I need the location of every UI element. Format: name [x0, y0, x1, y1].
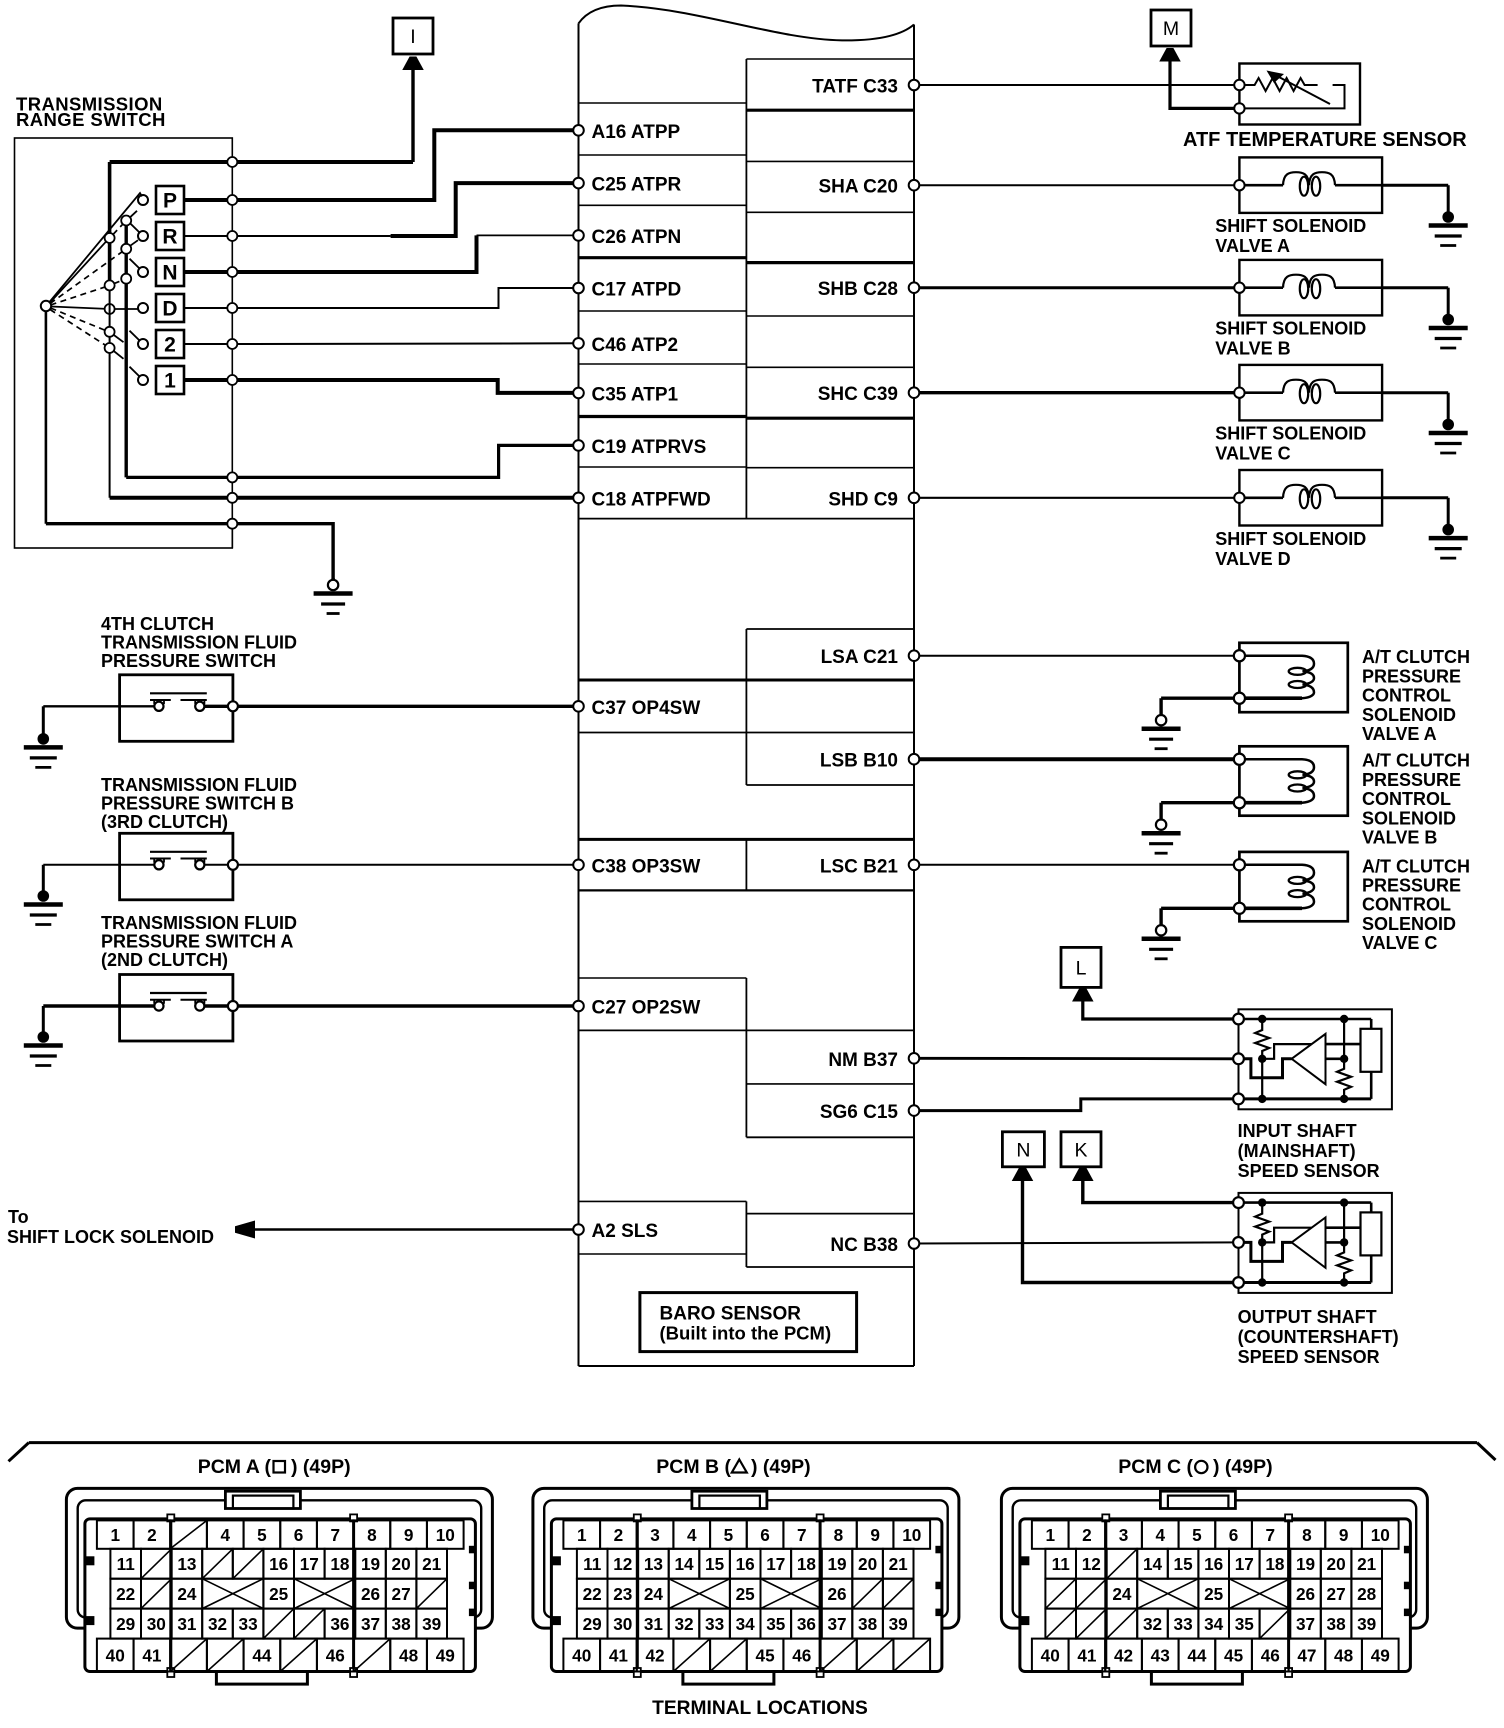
svg-text:VALVE A: VALVE A [1362, 724, 1437, 744]
svg-text:38: 38 [392, 1614, 412, 1634]
svg-text:8: 8 [834, 1525, 844, 1545]
svg-text:45: 45 [1224, 1645, 1244, 1665]
ground wire clutch valve C [1161, 907, 1234, 910]
wire SHA PCM to shift solenoid valve A [914, 184, 1239, 186]
input shaft (mainshaft) speed sensor [1233, 1009, 1392, 1109]
wire R box to bus [184, 235, 232, 237]
svg-text:C17 ATPD: C17 ATPD [592, 280, 682, 301]
svg-text:ATF TEMPERATURE SENSOR: ATF TEMPERATURE SENSOR [1183, 129, 1467, 151]
svg-text:17: 17 [1235, 1554, 1254, 1574]
svg-text:(2ND CLUTCH): (2ND CLUTCH) [101, 950, 228, 970]
ground (switch B) [42, 865, 45, 896]
svg-text:SOLENOID: SOLENOID [1362, 808, 1456, 828]
PCM pin terminal circles [573, 80, 919, 1249]
svg-text:VALVE A: VALVE A [1215, 236, 1290, 256]
svg-text:2: 2 [164, 334, 176, 357]
contact 1 [138, 375, 148, 385]
svg-text:26: 26 [1296, 1584, 1315, 1604]
svg-text:OUTPUT SHAFT: OUTPUT SHAFT [1238, 1307, 1377, 1327]
svg-text:19: 19 [827, 1554, 846, 1574]
svg-text:2: 2 [1082, 1525, 1092, 1545]
svg-text:C37 OP4SW: C37 OP4SW [592, 698, 701, 719]
svg-text:9: 9 [1339, 1525, 1349, 1545]
svg-text:RANGE SWITCH: RANGE SWITCH [16, 109, 166, 130]
range switch position box P [156, 186, 184, 214]
svg-text:9: 9 [870, 1525, 880, 1545]
output shaft (countershaft) speed sensor [1233, 1193, 1392, 1293]
range switch position box 2 [156, 330, 184, 358]
svg-text:32: 32 [1143, 1614, 1162, 1634]
svg-text:PRESSURE: PRESSURE [1362, 770, 1461, 790]
wire TATF C33 to sensor [914, 84, 1239, 86]
svg-text:31: 31 [177, 1614, 197, 1634]
svg-text:15: 15 [705, 1554, 725, 1574]
svg-text:PCM B (: PCM B ( [656, 1456, 731, 1478]
ground (shift solenoid valve C) [1447, 393, 1450, 425]
svg-text:A16 ATPP: A16 ATPP [592, 122, 681, 143]
svg-text:VALVE D: VALVE D [1215, 549, 1290, 569]
svg-text:17: 17 [300, 1554, 319, 1574]
svg-text:VALVE B: VALVE B [1362, 828, 1437, 848]
PCM internal cell borders [579, 59, 915, 1267]
wire LSA PCM to clutch valve A [914, 655, 1239, 657]
connector M arrowhead [1159, 48, 1181, 62]
svg-text:1: 1 [577, 1525, 587, 1545]
svg-text:9: 9 [404, 1525, 414, 1545]
svg-text:C38 OP3SW: C38 OP3SW [592, 856, 701, 877]
svg-text:7: 7 [1265, 1525, 1275, 1545]
svg-text:10: 10 [436, 1525, 455, 1545]
variable-resistor arrow [1277, 76, 1330, 104]
svg-text:2: 2 [614, 1525, 624, 1545]
svg-text:41: 41 [142, 1645, 162, 1665]
dashed linkage lines [50, 224, 123, 346]
svg-text:14: 14 [1143, 1554, 1163, 1574]
ground wire valve C [1382, 391, 1448, 394]
svg-text:5: 5 [257, 1525, 267, 1545]
svg-text:33: 33 [705, 1614, 724, 1634]
wire N to C26 ATPN [232, 235, 476, 272]
svg-text:48: 48 [399, 1645, 419, 1665]
wiper link pivot to column A [50, 241, 107, 302]
svg-text:40: 40 [1041, 1645, 1060, 1665]
svg-text:21: 21 [422, 1554, 442, 1574]
svg-text:36: 36 [797, 1614, 816, 1634]
wire P to A16 ATPP [232, 130, 578, 200]
wire P box to bus [184, 198, 232, 202]
svg-text:NM B37: NM B37 [828, 1050, 898, 1071]
A/T clutch pressure control solenoid valve B [1234, 746, 1348, 815]
svg-text:P: P [163, 190, 177, 213]
svg-text:18: 18 [1265, 1554, 1285, 1574]
ground wire valve D [1382, 496, 1448, 499]
svg-text:) (49P): ) (49P) [291, 1456, 351, 1478]
ground wire clutch valve A [1161, 697, 1234, 700]
svg-text:42: 42 [646, 1645, 665, 1665]
wire LSC PCM to clutch valve C [914, 864, 1239, 866]
svg-text:39: 39 [889, 1614, 908, 1634]
transmission fluid pressure switch B [120, 833, 233, 900]
svg-text:SHIFT LOCK SOLENOID: SHIFT LOCK SOLENOID [7, 1227, 214, 1247]
svg-text:2: 2 [147, 1525, 157, 1545]
svg-text:39: 39 [1357, 1614, 1376, 1634]
svg-text:35: 35 [1235, 1614, 1255, 1634]
svg-text:18: 18 [330, 1554, 350, 1574]
svg-text:LSB B10: LSB B10 [820, 751, 898, 772]
svg-text:C46 ATP2: C46 ATP2 [592, 335, 679, 356]
terminal locations frame [9, 1443, 1496, 1462]
svg-text:SHIFT SOLENOID: SHIFT SOLENOID [1215, 319, 1366, 339]
svg-text:SHB C28: SHB C28 [818, 279, 898, 300]
svg-text:(3RD CLUTCH): (3RD CLUTCH) [101, 812, 228, 832]
connector I [393, 18, 433, 54]
svg-text:44: 44 [1187, 1645, 1207, 1665]
svg-text:20: 20 [1327, 1554, 1346, 1574]
wire 2 box to bus [184, 343, 232, 345]
ground (clutch valve C) [1159, 908, 1162, 926]
svg-text:37: 37 [1296, 1614, 1315, 1634]
svg-text:13: 13 [177, 1554, 196, 1574]
svg-text:TRANSMISSION FLUID: TRANSMISSION FLUID [101, 633, 297, 653]
svg-text:SOLENOID: SOLENOID [1362, 705, 1456, 725]
shift solenoid valve C [1234, 365, 1382, 421]
svg-text:PRESSURE: PRESSURE [1362, 666, 1461, 686]
svg-text:40: 40 [106, 1645, 125, 1665]
svg-text:N: N [1016, 1139, 1030, 1161]
connector N arrowhead [1012, 1168, 1034, 1182]
BARO sensor (built into PCM) [640, 1293, 857, 1352]
svg-text:41: 41 [1077, 1645, 1097, 1665]
switch column line B (x=126.2) [124, 221, 127, 478]
svg-text:32: 32 [208, 1614, 227, 1634]
A/T clutch pressure control solenoid valve A [1234, 643, 1348, 712]
svg-text:BARO SENSOR: BARO SENSOR [660, 1304, 802, 1325]
svg-text:6: 6 [294, 1525, 304, 1545]
contact D [138, 303, 148, 313]
wire input sensor to connector L [1083, 1000, 1239, 1019]
svg-text:4TH CLUTCH: 4TH CLUTCH [101, 614, 214, 634]
wire SHB PCM to shift solenoid valve B [914, 286, 1239, 289]
svg-text:46: 46 [1261, 1645, 1280, 1665]
svg-text:43: 43 [1151, 1645, 1170, 1665]
wire output sensor to connector N [1023, 1180, 1239, 1282]
svg-text:SHIFT SOLENOID: SHIFT SOLENOID [1215, 529, 1366, 549]
svg-text:3: 3 [650, 1525, 660, 1545]
wire A2 SLS to shift lock solenoid [252, 1228, 579, 1231]
svg-text:46: 46 [326, 1645, 345, 1665]
svg-text:41: 41 [609, 1645, 629, 1665]
shift solenoid valve B [1234, 260, 1382, 316]
A/T clutch pressure control solenoid valve C [1234, 852, 1348, 921]
wire SG6 C15 to input sensor [914, 1099, 1239, 1111]
wire SHC PCM to shift solenoid valve C [914, 391, 1239, 394]
svg-text:7: 7 [330, 1525, 340, 1545]
svg-text:A2 SLS: A2 SLS [592, 1221, 659, 1242]
svg-text:TERMINAL LOCATIONS: TERMINAL LOCATIONS [652, 1698, 868, 1719]
PCM A connector (terminal view) [66, 1488, 492, 1684]
svg-text:24: 24 [1112, 1584, 1132, 1604]
svg-text:38: 38 [1327, 1614, 1347, 1634]
wire 1 box to bus [184, 378, 232, 382]
4th clutch transmission fluid pressure switch [120, 675, 233, 742]
svg-text:CONTROL: CONTROL [1362, 686, 1451, 706]
svg-text:VALVE C: VALVE C [1215, 444, 1290, 464]
svg-text:PRESSURE SWITCH A: PRESSURE SWITCH A [101, 932, 293, 952]
range switch position box D [156, 294, 184, 322]
svg-text:SPEED SENSOR: SPEED SENSOR [1238, 1161, 1380, 1181]
svg-text:A/T CLUTCH: A/T CLUTCH [1362, 856, 1470, 876]
contact P [138, 195, 148, 205]
ground (clutch valve B) [1159, 803, 1162, 821]
svg-text:12: 12 [1082, 1554, 1101, 1574]
svg-text:VALVE B: VALVE B [1215, 339, 1290, 359]
wire bus to range switch ground [232, 524, 333, 580]
svg-text:8: 8 [367, 1525, 377, 1545]
svg-text:16: 16 [736, 1554, 755, 1574]
ground (4th clutch switch) [42, 706, 45, 739]
svg-text:46: 46 [792, 1645, 811, 1665]
wire R to C25 ATPR [232, 235, 390, 237]
svg-text:48: 48 [1334, 1645, 1354, 1665]
wire NM B37 to input sensor [914, 1057, 1239, 1060]
svg-text:4: 4 [1155, 1525, 1165, 1545]
range switch position box N [156, 258, 184, 286]
ground (shift solenoid valve A) [1447, 185, 1450, 217]
svg-text:7: 7 [797, 1525, 807, 1545]
svg-text:SOLENOID: SOLENOID [1362, 914, 1456, 934]
wire output sensor to connector K [1083, 1180, 1239, 1202]
svg-text:31: 31 [644, 1614, 664, 1634]
svg-text:C26 ATPN: C26 ATPN [592, 227, 682, 248]
wire ATPFWD to C18 [110, 496, 579, 500]
arrowhead to shift lock solenoid [235, 1221, 255, 1239]
ground (shift solenoid valve B) [1447, 288, 1450, 320]
svg-text:C25 ATPR: C25 ATPR [592, 175, 682, 196]
svg-text:23: 23 [613, 1584, 632, 1604]
connector K [1061, 1132, 1101, 1167]
svg-text:21: 21 [1357, 1554, 1377, 1574]
contact 2 [138, 339, 148, 349]
svg-text:I: I [410, 26, 415, 48]
bus node circles [227, 157, 237, 529]
switch box bottom-right step [231, 524, 233, 548]
svg-text:49: 49 [436, 1645, 455, 1665]
ground (shift solenoid valve D) [1447, 498, 1450, 530]
PCM outline (torn-top box) [579, 6, 915, 1367]
svg-text:SHIFT SOLENOID: SHIFT SOLENOID [1215, 216, 1366, 236]
contact levers [113, 211, 140, 377]
svg-text:PRESSURE SWITCH: PRESSURE SWITCH [101, 651, 276, 671]
wire D box to bus [184, 307, 232, 309]
svg-text:(COUNTERSHAFT): (COUNTERSHAFT) [1238, 1327, 1399, 1347]
svg-text:25: 25 [269, 1584, 289, 1604]
svg-text:47: 47 [1297, 1645, 1316, 1665]
svg-text:18: 18 [797, 1554, 817, 1574]
wiper arm engaged D [51, 307, 110, 310]
svg-text:PCM A (: PCM A ( [198, 1456, 272, 1478]
svg-text:1: 1 [110, 1525, 120, 1545]
svg-text:A/T CLUTCH: A/T CLUTCH [1362, 647, 1470, 667]
ground wire valve B [1382, 286, 1448, 289]
svg-text:45: 45 [756, 1645, 776, 1665]
connector L [1061, 947, 1101, 987]
svg-text:R: R [162, 226, 177, 249]
svg-text:L: L [1076, 957, 1087, 979]
svg-text:25: 25 [736, 1584, 756, 1604]
svg-text:16: 16 [1204, 1554, 1223, 1574]
connector N [1002, 1132, 1044, 1167]
svg-text:5: 5 [724, 1525, 734, 1545]
ground wire clutch valve B [1161, 801, 1234, 804]
svg-text:) (49P): ) (49P) [1213, 1456, 1273, 1478]
svg-text:8: 8 [1302, 1525, 1312, 1545]
svg-text:20: 20 [392, 1554, 411, 1574]
wire N box to bus [184, 270, 232, 274]
connector M [1151, 10, 1191, 46]
svg-text:27: 27 [1327, 1584, 1346, 1604]
svg-text:N: N [162, 262, 177, 285]
svg-text:CONTROL: CONTROL [1362, 895, 1451, 915]
svg-text:44: 44 [252, 1645, 272, 1665]
ATF temperature sensor [1234, 64, 1360, 125]
svg-text:10: 10 [1371, 1525, 1390, 1545]
wire D to C17 ATPD [232, 288, 578, 308]
wire LSB PCM to clutch valve B [914, 757, 1239, 761]
range switch position box 1 [156, 366, 184, 394]
svg-text:21: 21 [889, 1554, 909, 1574]
svg-text:INPUT SHAFT: INPUT SHAFT [1238, 1121, 1357, 1141]
svg-text:24: 24 [644, 1584, 664, 1604]
svg-text:TRANSMISSION FLUID: TRANSMISSION FLUID [101, 775, 297, 795]
svg-text:17: 17 [766, 1554, 785, 1574]
transmission range switch box [15, 138, 233, 548]
svg-text:SG6 C15: SG6 C15 [820, 1102, 899, 1123]
svg-text:PRESSURE: PRESSURE [1362, 876, 1461, 896]
ground (clutch valve A) [1159, 698, 1162, 716]
wire 1 to C35 ATP1 [232, 380, 578, 393]
node D wiper [105, 304, 115, 314]
PCM B connector (terminal view) [533, 1488, 959, 1684]
svg-text:36: 36 [330, 1614, 349, 1634]
svg-text:SPEED SENSOR: SPEED SENSOR [1238, 1347, 1380, 1367]
svg-text:(Built into the PCM): (Built into the PCM) [660, 1323, 832, 1344]
svg-text:TRANSMISSION FLUID: TRANSMISSION FLUID [101, 913, 297, 933]
svg-text:22: 22 [583, 1584, 602, 1604]
svg-text:26: 26 [827, 1584, 846, 1604]
svg-text:11: 11 [583, 1554, 602, 1574]
svg-text:42: 42 [1114, 1645, 1133, 1665]
svg-text:15: 15 [1174, 1554, 1194, 1574]
svg-text:34: 34 [736, 1614, 756, 1634]
connector I arrowhead [402, 57, 424, 71]
svg-text:16: 16 [269, 1554, 288, 1574]
svg-text:LSC B21: LSC B21 [820, 856, 899, 877]
svg-text:27: 27 [392, 1584, 411, 1604]
svg-text:K: K [1074, 1139, 1087, 1161]
svg-text:) (49P): ) (49P) [751, 1456, 811, 1478]
svg-text:4: 4 [220, 1525, 230, 1545]
svg-text:LSA C21: LSA C21 [821, 647, 899, 668]
switch common pivot [41, 301, 51, 311]
svg-text:A/T CLUTCH: A/T CLUTCH [1362, 751, 1470, 771]
svg-text:30: 30 [147, 1614, 166, 1634]
svg-text:49: 49 [1371, 1645, 1390, 1665]
svg-text:SHC C39: SHC C39 [818, 384, 898, 405]
svg-text:13: 13 [644, 1554, 663, 1574]
svg-text:34: 34 [1204, 1614, 1224, 1634]
shift solenoid valve D [1234, 470, 1382, 526]
svg-text:SHIFT SOLENOID: SHIFT SOLENOID [1215, 424, 1366, 444]
wiper arm solid (P position) [50, 193, 143, 302]
wire ATPRVS to C19 [126, 445, 578, 477]
connector K arrowhead [1072, 1168, 1094, 1182]
svg-text:29: 29 [583, 1614, 602, 1634]
svg-text:33: 33 [239, 1614, 258, 1634]
svg-text:11: 11 [1052, 1554, 1071, 1574]
svg-text:32: 32 [674, 1614, 693, 1634]
svg-text:11: 11 [117, 1554, 136, 1574]
column B nodes [121, 216, 131, 284]
svg-text:28: 28 [1357, 1584, 1377, 1604]
svg-text:19: 19 [361, 1554, 380, 1574]
svg-text:29: 29 [116, 1614, 135, 1634]
svg-text:37: 37 [827, 1614, 846, 1634]
svg-text:5: 5 [1192, 1525, 1202, 1545]
svg-text:30: 30 [613, 1614, 632, 1634]
svg-text:1: 1 [1045, 1525, 1055, 1545]
connector L arrowhead [1072, 988, 1094, 1002]
svg-text:40: 40 [572, 1645, 591, 1665]
svg-text:38: 38 [858, 1614, 878, 1634]
svg-text:6: 6 [760, 1525, 770, 1545]
svg-text:C19 ATPRVS: C19 ATPRVS [592, 437, 707, 458]
contact R [138, 231, 148, 241]
PCM C connector (terminal view) [1001, 1488, 1427, 1684]
svg-text:NC B38: NC B38 [830, 1235, 898, 1256]
svg-text:C35 ATP1: C35 ATP1 [592, 384, 679, 405]
svg-text:TATF C33: TATF C33 [812, 77, 898, 98]
svg-text:12: 12 [613, 1554, 632, 1574]
svg-text:(MAINSHAFT): (MAINSHAFT) [1238, 1141, 1356, 1161]
svg-text:35: 35 [766, 1614, 786, 1634]
wire sensor to connector M [1170, 61, 1234, 109]
svg-text:37: 37 [361, 1614, 380, 1634]
switch column line A (x=109.6) [108, 162, 112, 285]
transmission fluid pressure switch A [120, 975, 233, 1042]
shift solenoid valve A [1234, 157, 1382, 213]
wire 2 to C46 ATP2 [232, 342, 578, 345]
wire common to connector I [110, 160, 413, 164]
svg-text:14: 14 [674, 1554, 694, 1574]
svg-text:25: 25 [1204, 1584, 1224, 1604]
contact N [138, 267, 148, 277]
wire SHD PCM to shift solenoid valve D [914, 497, 1239, 499]
svg-text:SHA C20: SHA C20 [818, 177, 898, 198]
column A nodes [105, 233, 115, 353]
svg-text:20: 20 [858, 1554, 877, 1574]
svg-text:D: D [162, 298, 177, 321]
svg-text:4: 4 [687, 1525, 697, 1545]
svg-text:M: M [1163, 18, 1179, 40]
svg-text:6: 6 [1229, 1525, 1239, 1545]
svg-text:1: 1 [164, 370, 176, 393]
svg-text:CONTROL: CONTROL [1362, 789, 1451, 809]
svg-text:To: To [8, 1207, 29, 1227]
svg-text:3: 3 [1119, 1525, 1129, 1545]
range switch ground [331, 578, 334, 581]
ground wire valve A [1382, 184, 1448, 187]
svg-text:26: 26 [361, 1584, 380, 1604]
